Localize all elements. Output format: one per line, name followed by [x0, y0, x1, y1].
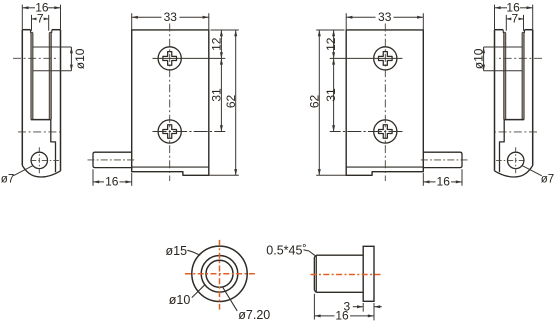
bushing side centerline [311, 274, 383, 276]
view2 dim62 line [235, 30, 237, 175]
view2 screw hole2 circle [158, 120, 181, 143]
view1 hinge hole v-centerline [38, 147, 40, 173]
view4 right gasket strip [504, 33, 506, 120]
view4 hinge hole v-centerline [515, 147, 517, 173]
view4 lower centerline [495, 131, 537, 133]
bushing front inner circle o7.20 [206, 260, 233, 287]
view4 glass-hole bottom line [484, 70, 522, 72]
view2 pin centerline [88, 159, 136, 161]
view2 hole1 centerline-extension [153, 57, 226, 59]
bushing dim16 line [314, 315, 334, 317]
view3 top ext line [316, 29, 344, 31]
view2 dim33 ext [131, 13, 133, 30]
view3 dim12 line [333, 30, 335, 58]
view1 o7 leader [13, 166, 33, 176]
view2 hole2 centerline-extension [153, 131, 226, 133]
view1 left notch [31, 30, 33, 33]
view3 screw hole1 circle [374, 47, 397, 70]
svg-text:7: 7 [511, 12, 518, 26]
view2 dim33 line [132, 16, 162, 18]
bushing front outer circle o15 [192, 246, 247, 301]
view4 upper centerline [496, 57, 542, 59]
svg-text:12: 12 [324, 37, 338, 51]
chamfer leader [304, 250, 316, 256]
view4 glass-hole top line [484, 46, 522, 48]
view1 left prong top [22, 29, 30, 31]
view1 glass-hole bottom line [33, 70, 71, 72]
view1 left gasket strip [31, 33, 33, 120]
svg-text:62: 62 [308, 95, 322, 109]
view4 right outer edge [494, 30, 496, 171]
view1 hinge hole h-centerline [30, 159, 59, 161]
view3 bottom inner line [346, 166, 423, 168]
view3 dim62 line [318, 30, 320, 175]
o15 leader [187, 250, 200, 255]
view3 vertical centerline [384, 24, 386, 182]
view1 dim16 line [22, 7, 35, 9]
view3 screw hole2 circle [374, 120, 397, 143]
view3 dim33 line [394, 16, 424, 18]
view4 dim7 ext [523, 15, 525, 31]
view2 top ext line [211, 29, 239, 31]
view4 bottom arc [495, 166, 533, 178]
view2 body outline [132, 30, 209, 175]
view4 clamp side-view left outer edge [532, 30, 534, 166]
svg-text:62: 62 [224, 95, 238, 109]
view4 slot bottom [504, 119, 524, 121]
svg-text:ø10: ø10 [471, 48, 485, 69]
view4 left prong top [525, 29, 533, 31]
view4 dim16 ext lines [532, 5, 534, 30]
view1 bottom arc [22, 166, 60, 178]
view2 screw hole1 circle [158, 47, 181, 70]
o10 leader [192, 285, 205, 298]
view4 hinge hole circle [508, 152, 524, 168]
svg-text:33: 33 [164, 10, 178, 24]
view1 lower centerline [18, 131, 60, 133]
view3 pin centerline [420, 159, 468, 161]
view2 pin dim16 ext [92, 169, 94, 186]
view1 dim-o10 line [70, 47, 72, 71]
view4 left notch [522, 30, 524, 33]
svg-text:ø7.20: ø7.20 [238, 308, 270, 322]
dim3 line [353, 306, 363, 308]
view1 hinge hole circle [31, 152, 47, 168]
dim3 ext lines [362, 303, 364, 312]
view1 right outer edge [60, 30, 62, 171]
o7.20 leader [223, 287, 238, 311]
svg-text:33: 33 [378, 10, 392, 24]
view1 right prong top [52, 29, 61, 31]
view4 dim-o10 line [483, 47, 485, 71]
view1 dim7 line [32, 18, 37, 20]
view4 dim7 line [519, 18, 524, 20]
view4 right prong top [495, 29, 504, 31]
view1 right notch [49, 30, 52, 33]
view3 bottom ext line [316, 174, 346, 176]
view3 screw hole1 phillips cross [379, 52, 393, 66]
view4 left gasket strip [522, 33, 524, 120]
view2 screw hole2 phillips cross [163, 125, 177, 139]
dim16 ext line [313, 294, 315, 320]
view4 hinge step [500, 120, 505, 173]
svg-text:16: 16 [335, 309, 349, 323]
view3 pin dim16 ext [461, 169, 463, 186]
svg-text:31: 31 [210, 88, 224, 102]
view2 dim12 line [220, 30, 222, 58]
view1 glass-hole top line [33, 46, 71, 48]
svg-text:ø10: ø10 [169, 293, 191, 307]
view2 mounting pin [93, 152, 132, 167]
svg-text:16: 16 [105, 175, 119, 189]
svg-text:ø7: ø7 [541, 173, 554, 185]
bushing front middle circle o10 [201, 255, 238, 292]
view2 dim31 line [220, 58, 222, 131]
svg-text:7: 7 [37, 12, 44, 26]
view3 screw hole2 phillips cross [379, 125, 393, 139]
svg-text:31: 31 [324, 88, 338, 102]
view1 upper centerline [13, 57, 59, 59]
view1 slot bottom [31, 119, 51, 121]
view3 dim31 line [333, 58, 335, 131]
bushing side chamfer line [315, 255, 317, 292]
view3 pin dim16 line [451, 181, 462, 183]
view2 pin dim16 line [93, 181, 104, 183]
svg-text:16: 16 [437, 175, 451, 189]
svg-text:ø10: ø10 [73, 48, 87, 69]
view3 body outline [346, 30, 423, 175]
bushing side body [314, 255, 363, 292]
bushing front horizontal centerline [185, 273, 256, 275]
svg-text:ø7: ø7 [1, 173, 14, 185]
view4 o7 leader [522, 166, 542, 176]
bushing side flange [363, 246, 374, 301]
view3 mounting pin [423, 152, 462, 167]
view2 bottom inner line [132, 166, 209, 168]
view2 bottom ext line [209, 174, 239, 176]
view4 right notch [503, 30, 506, 33]
view2 screw hole1 phillips cross [163, 52, 177, 66]
view1 hinge step [51, 120, 56, 173]
view3 hole1 centerline-extension [330, 57, 403, 59]
view4 hinge hole h-centerline [496, 159, 525, 161]
view3 dim33 ext [422, 13, 424, 30]
bushing front vertical centerline [219, 240, 221, 310]
view1 dim7 ext [31, 15, 33, 31]
view1 clamp side-view left outer edge [21, 30, 23, 166]
svg-text:ø15: ø15 [166, 244, 188, 258]
view1 right gasket strip [49, 33, 51, 120]
view3 hole2 centerline-extension [330, 131, 403, 133]
view2 vertical centerline [169, 24, 171, 182]
svg-text:0.5*45˚: 0.5*45˚ [266, 243, 306, 257]
view4 dim16 line [520, 7, 533, 9]
svg-text:12: 12 [210, 37, 224, 51]
view1 dim16 ext lines [21, 5, 23, 30]
